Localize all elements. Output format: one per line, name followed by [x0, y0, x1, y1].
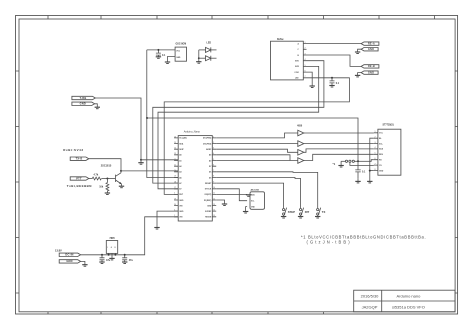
- svg-text:23: 23: [174, 153, 176, 155]
- svg-text:D13(PB5): D13(PB5): [203, 138, 212, 140]
- svg-text:GND: GND: [379, 170, 384, 172]
- svg-text:10k: 10k: [99, 186, 104, 189]
- svg-text:D11(PB3): D11(PB3): [203, 143, 212, 145]
- svg-text:RoSw: RoSw: [277, 39, 284, 41]
- svg-text:RE-A: RE-A: [368, 41, 375, 45]
- svg-text:OSC-8GM: OSC-8GM: [176, 44, 187, 46]
- svg-text:RIT: RIT: [305, 210, 310, 214]
- svg-text:D1(REF): D1(REF): [204, 200, 212, 202]
- svg-text:21: 21: [174, 165, 176, 167]
- svg-text:9: 9: [213, 181, 214, 183]
- svg-text:GND: GND: [207, 205, 212, 207]
- svg-text:AE-5351: AE-5351: [251, 189, 260, 192]
- svg-text:RxBt:SV43: RxBt:SV43: [63, 148, 83, 152]
- svg-text:30: 30: [174, 204, 176, 206]
- svg-text:4: 4: [375, 147, 376, 149]
- svg-text:COM: COM: [294, 72, 299, 74]
- svg-text:GND: GND: [179, 211, 184, 213]
- svg-text:12: 12: [213, 198, 215, 200]
- svg-text:15: 15: [213, 215, 215, 217]
- svg-text:3: 3: [375, 142, 376, 144]
- svg-text:22: 22: [174, 159, 176, 161]
- svg-text:TxBt,BEEBBN: TxBt,BEEBBN: [67, 184, 92, 188]
- svg-text:JA2GQP: JA2GQP: [362, 305, 378, 310]
- svg-text:7: 7: [375, 163, 376, 165]
- svg-text:SKIP: SKIP: [179, 149, 184, 151]
- svg-text:A1: A1: [179, 159, 181, 162]
- svg-text:GND: GND: [176, 57, 181, 59]
- svg-text:GND: GND: [179, 200, 184, 202]
- svg-text:TX-B: TX-B: [76, 157, 83, 161]
- svg-text:*1: *1: [333, 162, 336, 166]
- svg-text:6: 6: [213, 165, 214, 167]
- svg-text:6: 6: [375, 158, 376, 160]
- svg-text:GND: GND: [368, 47, 374, 51]
- svg-text:DC-IN: DC-IN: [65, 253, 73, 257]
- svg-text:A9: A9: [209, 159, 211, 162]
- svg-text:2SC1815: 2SC1815: [101, 164, 112, 167]
- svg-text:14: 14: [213, 210, 215, 212]
- svg-text:2: 2: [375, 136, 376, 138]
- svg-text:5: 5: [213, 159, 214, 161]
- svg-text:13: 13: [213, 204, 215, 206]
- svg-text:7: 7: [213, 170, 214, 172]
- svg-text:3: 3: [213, 148, 214, 150]
- svg-text:47u: 47u: [106, 259, 111, 262]
- svg-text:ST7735(S): ST7735(S): [383, 124, 394, 126]
- svg-text:25: 25: [174, 142, 176, 144]
- svg-text:4: 4: [174, 193, 175, 195]
- svg-text:26: 26: [174, 136, 176, 138]
- svg-text:SCL(A5): SCL(A5): [179, 137, 187, 140]
- svg-text:TX: TX: [322, 210, 326, 214]
- svg-text:2016/5/30: 2016/5/30: [361, 294, 380, 299]
- svg-text:Arduino nano: Arduino nano: [397, 294, 422, 299]
- svg-text:D2(INT): D2(INT): [205, 194, 212, 196]
- svg-text:8: 8: [213, 176, 214, 178]
- svg-text:D6: D6: [209, 172, 211, 174]
- svg-text:T-RB: T-RB: [80, 96, 87, 100]
- svg-text:RESET: RESET: [205, 183, 212, 185]
- svg-text:4.7k: 4.7k: [94, 174, 99, 177]
- svg-text:SW1: SW1: [295, 61, 299, 63]
- svg-text:4: 4: [213, 153, 214, 155]
- svg-text:47u: 47u: [129, 259, 134, 262]
- svg-text:PTT: PTT: [76, 176, 82, 180]
- svg-text:3: 3: [174, 210, 175, 212]
- svg-text:REGIN: REGIN: [205, 217, 212, 219]
- svg-text:A2: A2: [179, 165, 181, 168]
- svg-text:2: 2: [213, 142, 214, 144]
- svg-text:SDA: SDA: [379, 148, 384, 151]
- svg-text:2: 2: [174, 215, 175, 217]
- svg-text:SVREF: SVREF: [205, 211, 212, 213]
- svg-text:8: 8: [375, 169, 376, 171]
- svg-text:29: 29: [174, 198, 176, 200]
- svg-text:D5: D5: [209, 177, 211, 179]
- svg-text:7805: 7805: [109, 237, 115, 240]
- svg-text:20: 20: [174, 170, 176, 172]
- svg-text:GND: GND: [80, 102, 86, 106]
- svg-text:RE-B: RE-B: [368, 64, 375, 68]
- svg-text:GND: GND: [66, 259, 72, 263]
- svg-text:A3: A3: [179, 171, 181, 174]
- svg-text:si5351a DDS VFO: si5351a DDS VFO: [392, 305, 425, 310]
- svg-text:Arduino_Nano: Arduino_Nano: [184, 131, 201, 134]
- svg-text:SW2: SW2: [295, 66, 299, 68]
- svg-text:A7: A7: [179, 182, 181, 185]
- svg-text:4050: 4050: [297, 124, 303, 127]
- svg-text:(GtzJN-tBB): (GtzJN-tBB): [307, 240, 352, 245]
- svg-text:SYSCK: SYSCK: [205, 189, 212, 191]
- svg-text:LED: LED: [207, 43, 212, 45]
- svg-text:13.8V: 13.8V: [55, 248, 62, 252]
- svg-text:24: 24: [174, 148, 176, 150]
- svg-text:VCC: VCC: [379, 133, 384, 135]
- svg-text:1: 1: [213, 136, 214, 138]
- svg-text:A0: A0: [179, 154, 181, 157]
- svg-text:AREF: AREF: [206, 148, 212, 151]
- svg-text:SCL: SCL: [251, 201, 254, 203]
- svg-text:A8: A8: [209, 154, 211, 157]
- svg-text:5: 5: [375, 153, 376, 155]
- svg-text:17: 17: [174, 187, 176, 189]
- svg-text:A6: A6: [179, 176, 181, 179]
- svg-text:STEP: STEP: [288, 210, 295, 214]
- svg-text:11: 11: [213, 193, 215, 195]
- svg-text:10: 10: [213, 187, 215, 189]
- svg-text:GND: GND: [368, 70, 374, 74]
- svg-text:D7: D7: [209, 166, 211, 168]
- svg-text:SDA: SDA: [179, 142, 184, 145]
- svg-text:1: 1: [375, 131, 376, 133]
- svg-text:18: 18: [174, 181, 176, 183]
